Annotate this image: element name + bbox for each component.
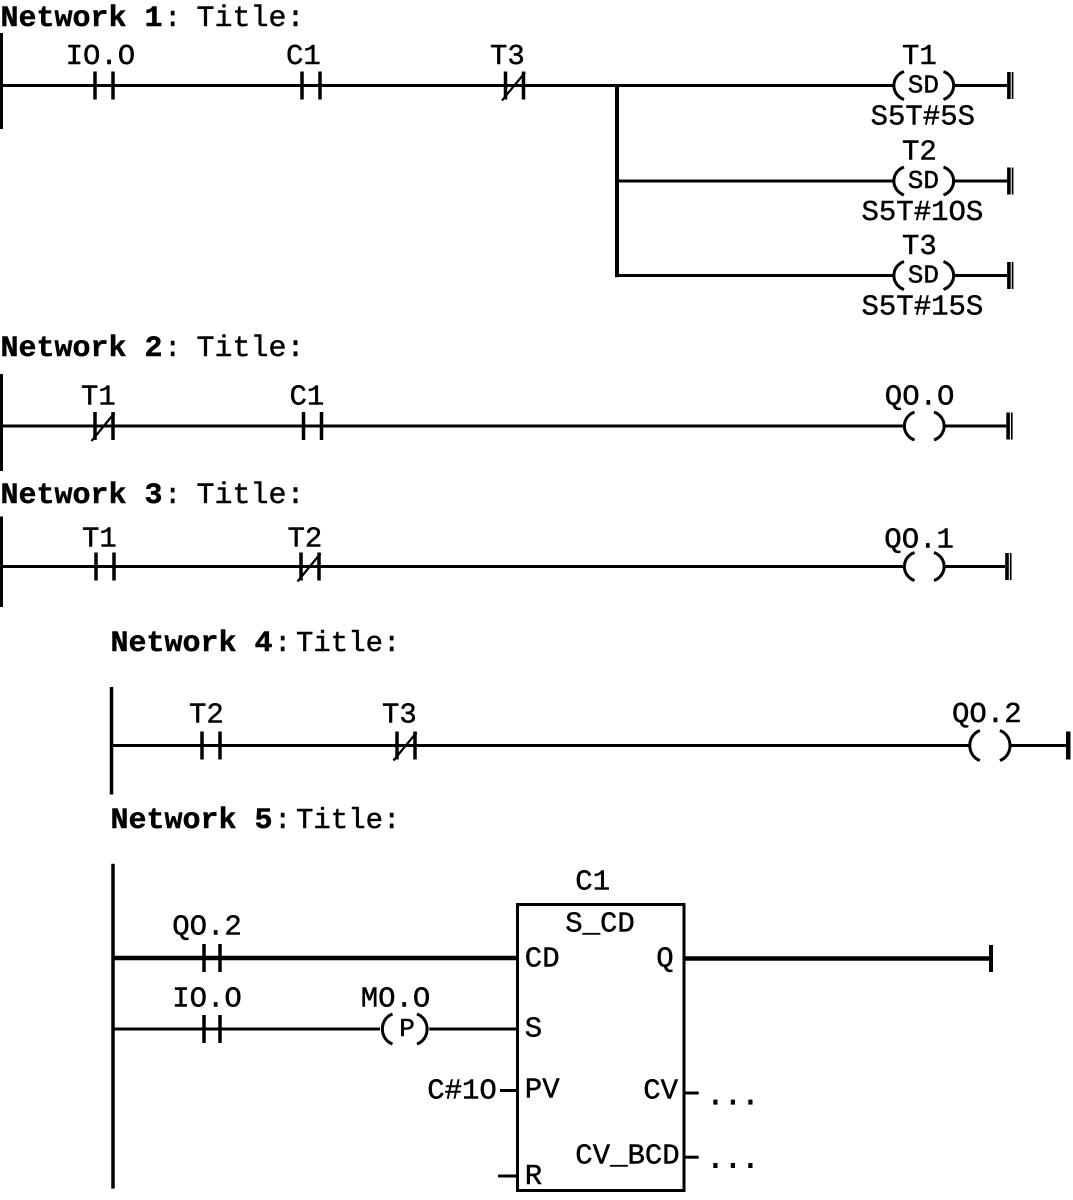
left power rail N1 [0,33,3,129]
svg-text::: : [164,332,181,365]
svg-text:T2: T2 [288,523,323,556]
coil Q0.2 [970,731,980,761]
coil M0.0 (P) pulse [382,1014,392,1044]
svg-text:C1: C1 [286,40,321,73]
svg-text:SD: SD [908,261,939,291]
contact T3 (NC) [504,72,508,100]
svg-text:QO.O: QO.O [885,381,955,414]
wire N2 [3,425,904,428]
svg-text:T2: T2 [189,699,224,732]
contact T1 (NC) [93,412,97,440]
wire Q output [684,956,989,961]
svg-text:Title:: Title: [296,804,400,837]
contact Q0.2 (NO) [202,944,206,972]
coil T1 (SD) [894,72,904,100]
CV_BCD unconnected dots [713,1163,717,1168]
svg-text:Title:: Title: [296,627,400,660]
svg-text:QO.2: QO.2 [172,911,242,944]
wire N4 [112,744,971,747]
right rail mark branch2 [1007,168,1011,195]
wire S rung left [115,1028,381,1031]
coil Q0.0 [904,412,914,440]
wire PV stub [500,1089,518,1092]
svg-text:T1: T1 [82,523,117,556]
branch vertical [615,84,619,277]
contact T1 (NO) [94,553,98,581]
wire to right rail N3 [945,565,1005,568]
svg-text:IO.O: IO.O [172,983,242,1016]
svg-text:SD: SD [908,166,939,196]
svg-text:Network 3: Network 3 [1,479,163,513]
svg-text:CD: CD [525,943,560,976]
wire CV stub [684,1092,699,1095]
svg-text:T1: T1 [81,381,116,414]
svg-text:QO.2: QO.2 [952,698,1022,731]
left power rail N4 [110,687,114,795]
svg-text:QO.1: QO.1 [884,524,954,557]
right rail mark N5 Q [989,945,993,972]
svg-text:Network 2: Network 2 [1,332,163,366]
svg-text::: : [164,479,181,512]
svg-text:S: S [525,1013,542,1046]
wire to right rail branch3 [952,274,1007,277]
wire CD rung [115,956,518,961]
wire CV_BCD stub [684,1156,699,1159]
svg-text:T3: T3 [902,230,937,263]
svg-text:T1: T1 [902,40,937,73]
wire N1 rung1 [3,84,895,87]
svg-text::: : [274,627,291,660]
right rail mark N3 [1005,553,1009,580]
wire to right rail N4 [1009,744,1066,747]
svg-text:MO.O: MO.O [361,983,431,1016]
svg-text:C1: C1 [290,381,325,414]
svg-text:C1: C1 [575,866,610,899]
svg-text:C#1O: C#1O [427,1075,497,1108]
contact I0.0 (NO) [202,1015,206,1043]
svg-text:Title:: Title: [197,479,305,513]
right rail mark N4 [1066,732,1071,760]
contact I0.0 (NO) [93,72,97,100]
wire branch3 [617,274,895,277]
svg-text:T3: T3 [490,40,525,73]
svg-text:SD: SD [908,71,939,101]
svg-text:S5T#1OS: S5T#1OS [862,196,984,229]
right rail mark branch1 [1007,72,1011,99]
svg-text:Title:: Title: [197,2,305,36]
svg-text::: : [274,804,291,837]
coil Q0.1 [904,553,914,581]
contact C1 (NO) [302,412,306,440]
svg-text:S5T#15S: S5T#15S [862,291,984,324]
svg-text:T2: T2 [902,136,937,169]
coil T3 (SD) [894,262,904,290]
wire to right rail N2 [945,425,1006,428]
svg-text:IO.O: IO.O [66,40,136,73]
right rail mark N2 [1006,413,1010,440]
wire to right rail branch2 [952,180,1007,183]
svg-text:Title:: Title: [197,332,305,366]
svg-text:P: P [399,1014,415,1044]
svg-text:PV: PV [525,1074,560,1107]
left power rail N2 [0,374,3,471]
svg-text:S5T#5S: S5T#5S [871,101,975,134]
svg-text:CV_BCD: CV_BCD [575,1140,679,1173]
contact T2 (NC) [299,553,303,581]
coil T2 (SD) [894,167,904,195]
right rail mark branch3 [1007,262,1011,289]
svg-text:Network 5: Network 5 [111,804,273,838]
contact T2 (NO) [200,732,204,760]
left power rail N5 [111,864,115,1189]
CV unconnected dots [713,1100,717,1105]
wire S rung right [429,1028,517,1031]
counter box S_CD U-C1 [518,905,685,1191]
left power rail N3 [0,517,3,608]
wire to right rail branch1 [952,84,1007,87]
wire R stub [498,1175,518,1178]
wire branch2 [617,180,895,183]
svg-text:R: R [525,1160,542,1193]
svg-text:T3: T3 [382,699,417,732]
svg-text::: : [164,2,181,35]
svg-text:CV: CV [643,1075,678,1108]
svg-text:Q: Q [656,943,673,976]
contact C1 (NO) [300,72,304,100]
wire N3 [3,565,904,568]
svg-text:Network 4: Network 4 [111,627,273,661]
svg-text:S_CD: S_CD [565,908,635,941]
svg-text:Network 1: Network 1 [1,2,163,36]
contact T3 (NC) [395,732,399,760]
